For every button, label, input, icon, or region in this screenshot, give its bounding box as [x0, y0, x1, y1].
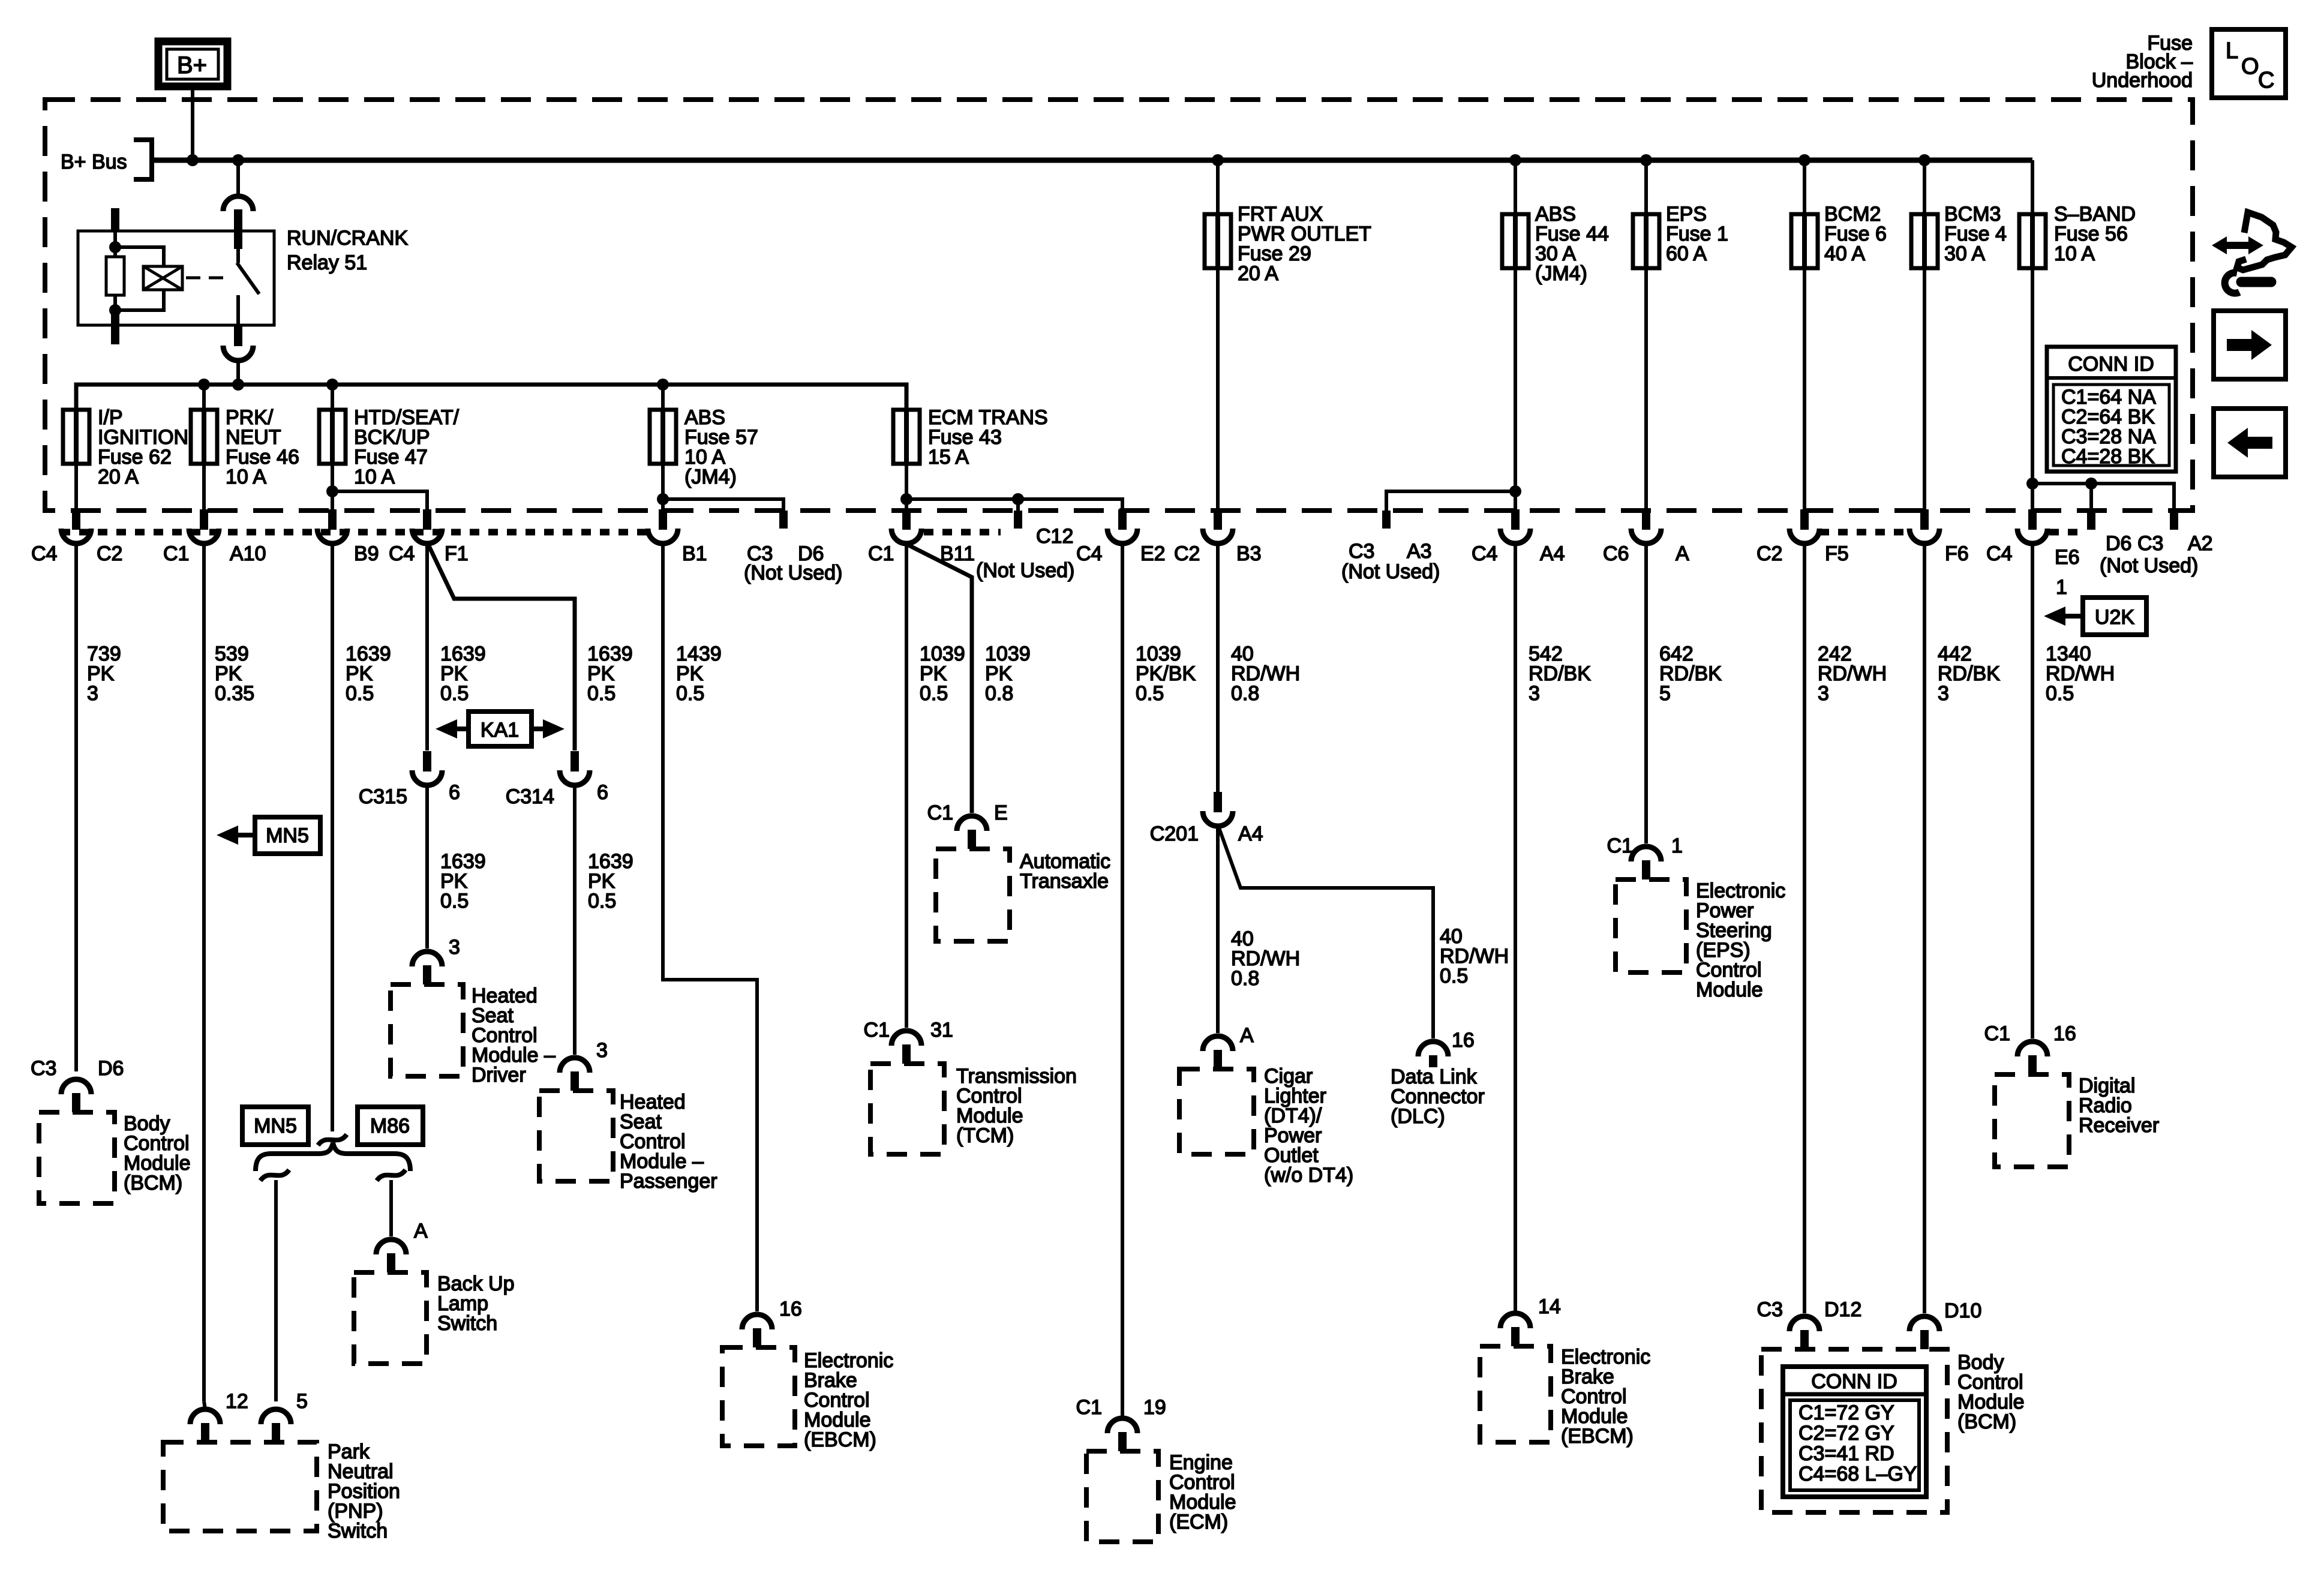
svg-text:E: E [994, 801, 1008, 824]
wire break squiggle (htd/seat) [318, 1134, 347, 1145]
relay output connector [234, 324, 242, 346]
junction bus to FRT AUX fuse [1212, 154, 1224, 166]
wire 739 PK (I/P to BCM) [74, 544, 78, 1071]
junction bus to BCM2 Fuse 6 [1798, 154, 1810, 166]
wire bus to relay connector [236, 160, 240, 197]
svg-text:C1: C1 [163, 542, 189, 565]
svg-text:0.5: 0.5 [1440, 965, 1468, 987]
svg-text:(BCM): (BCM) [124, 1172, 182, 1194]
relay coil wire upper [113, 232, 117, 247]
svg-text:(EBCM): (EBCM) [804, 1428, 876, 1451]
svg-text:(ECM): (ECM) [1169, 1511, 1228, 1533]
svg-text:Transaxle: Transaxle [1020, 870, 1109, 893]
junction bus to ABS Fuse 44 [1509, 154, 1521, 166]
svg-text:0.5: 0.5 [346, 682, 374, 705]
svg-text:0.8: 0.8 [1231, 682, 1259, 705]
wire B11 branch to transaxle [908, 545, 972, 813]
Cigar Lighter box [1179, 1069, 1254, 1154]
svg-text:0.5: 0.5 [440, 890, 469, 912]
svg-text:C12: C12 [1036, 525, 1073, 548]
wire B+ to B+ bus [191, 86, 194, 160]
svg-text:0.8: 0.8 [1231, 967, 1259, 990]
fuse FRT AUX PWR OUTLET Fuse 29 [1205, 214, 1231, 268]
svg-text:0.5: 0.5 [920, 682, 948, 705]
svg-text:C315: C315 [359, 785, 407, 808]
svg-text:A4: A4 [1540, 542, 1565, 565]
svg-text:D6: D6 [98, 1057, 124, 1080]
svg-text:E2: E2 [1140, 542, 1166, 565]
svg-text:16: 16 [1452, 1029, 1475, 1052]
svg-text:0.5: 0.5 [587, 682, 615, 705]
svg-text:B+ Bus: B+ Bus [61, 151, 127, 173]
junction fuse47 output branch [326, 485, 338, 497]
connector pin 3 heated seat driver [412, 951, 442, 966]
wire fuse44 to C4/A4 connector [1514, 268, 1517, 511]
connector C6/A (EPS output) [1642, 509, 1650, 530]
wire 40 RD/WH (B3 to C201) [1216, 544, 1220, 792]
relay solenoid coil (X box) [143, 266, 182, 290]
connector C1/19 ECM [1107, 1418, 1137, 1433]
wire 1639 PK (F1 to C315) [425, 544, 429, 751]
svg-text:12: 12 [226, 1390, 248, 1413]
svg-text:0.8: 0.8 [985, 682, 1013, 705]
fuse BCM3 Fuse 4 [1911, 214, 1938, 268]
svg-text:C4: C4 [1986, 542, 2012, 565]
wire branch to F1 connector [332, 491, 427, 511]
connector C1/B11 (ECM TRANS output) [902, 509, 911, 530]
svg-text:(Not Used): (Not Used) [976, 559, 1074, 582]
svg-text:C4: C4 [31, 542, 57, 565]
connector pin A cigar lighter [1203, 1036, 1233, 1051]
svg-text:F6: F6 [1945, 542, 1969, 565]
svg-text:C2=72 GY: C2=72 GY [1798, 1422, 1894, 1445]
KA1 reference box [469, 712, 532, 746]
stub C3/A3 (Not Used) [1382, 511, 1391, 529]
CONN ID table (BCM) [1783, 1367, 1926, 1497]
MN5 left arrow [217, 825, 238, 845]
svg-text:C3: C3 [2137, 532, 2163, 555]
svg-text:Switch: Switch [437, 1312, 497, 1335]
svg-text:40 A: 40 A [1824, 242, 1865, 265]
branch squiggle left [260, 1170, 289, 1181]
wire 242 RD/WH (F5 to BCM) [1803, 544, 1806, 1313]
svg-text:10 A: 10 A [354, 466, 395, 488]
relay switch blade [237, 263, 259, 294]
svg-text:C2: C2 [1756, 542, 1782, 565]
junction B+ to bus [187, 154, 199, 166]
wire fuse6 to F5 connector [1803, 268, 1806, 511]
svg-text:Module: Module [1696, 978, 1763, 1001]
wire C314 to heated seat passenger [573, 785, 577, 1055]
junction ign bus to relay output [232, 379, 244, 391]
svg-text:M86: M86 [370, 1115, 410, 1137]
wire fuse1 to C6/A connector [1644, 268, 1648, 511]
svg-text:6: 6 [449, 781, 460, 804]
svg-text:60 A: 60 A [1666, 242, 1707, 265]
connector C3/D12 BCM [1789, 1316, 1819, 1331]
wire relay output to ignition bus [236, 359, 240, 385]
svg-text:(JM4): (JM4) [1535, 262, 1587, 285]
wire branch to D6/A2 stubs [2032, 484, 2174, 511]
svg-text:C4: C4 [1472, 542, 1497, 565]
svg-text:C4=68 L–GY: C4=68 L–GY [1798, 1463, 1917, 1485]
svg-text:C1=72 GY: C1=72 GY [1798, 1401, 1894, 1424]
svg-text:C3: C3 [1757, 1298, 1783, 1321]
connector D10 BCM [1909, 1316, 1939, 1331]
Electronic Brake Control Module box (right) [1480, 1346, 1551, 1442]
connector body dotted line segment 4 [2049, 529, 2084, 536]
svg-text:C4=28 BK: C4=28 BK [2061, 445, 2155, 468]
svg-text:C4: C4 [389, 542, 415, 565]
wire fuse57 to B1 connector [661, 464, 665, 511]
svg-text:5: 5 [296, 1390, 308, 1413]
relay actuation dashed link [186, 277, 231, 280]
svg-text:F5: F5 [1825, 542, 1849, 565]
svg-text:CONN ID: CONN ID [2068, 353, 2154, 376]
M86 reference box [358, 1107, 423, 1145]
junction branch to D6 stub [2085, 478, 2097, 490]
junction fuse43 output branch [900, 493, 912, 505]
wire C201 branch to DLC [1219, 828, 1433, 1038]
svg-text:C1: C1 [1076, 1396, 1102, 1419]
svg-text:16: 16 [2053, 1022, 2076, 1045]
connector pin 16 DLC [1418, 1041, 1448, 1056]
svg-text:CONN ID: CONN ID [1811, 1370, 1897, 1393]
connector body dotted line segment 3 [1819, 529, 1908, 536]
svg-text:(DLC): (DLC) [1391, 1105, 1445, 1128]
svg-text:C6: C6 [1603, 542, 1629, 565]
svg-text:(Not Used): (Not Used) [2100, 554, 2198, 577]
wire branch to C3/A3 stub [1386, 491, 1515, 511]
wire fuse62 to connector [74, 464, 78, 511]
connector E6 (S-BAND output) [2028, 509, 2037, 530]
wire splice to backup lamp switch [389, 1180, 393, 1236]
svg-text:F1: F1 [445, 542, 469, 565]
svg-text:C1: C1 [1984, 1022, 2010, 1045]
svg-text:Underhood: Underhood [2092, 69, 2193, 92]
relay input connector [223, 196, 253, 211]
connector C315 [423, 751, 431, 772]
stub D6 (Not Used) [2087, 511, 2095, 530]
svg-text:(Not Used): (Not Used) [1341, 560, 1440, 583]
svg-text:A10: A10 [230, 542, 266, 565]
connector C314 [571, 751, 579, 772]
fuse ECM TRANS Fuse 43 [893, 410, 920, 464]
svg-text:A3: A3 [1407, 540, 1432, 563]
connector C4/F1 (HTD/SEAT branch) [423, 509, 431, 530]
Body Control Module BCM box (left) [39, 1112, 115, 1203]
svg-text:C201: C201 [1150, 822, 1199, 845]
connector pin 12 PNP [190, 1409, 220, 1424]
svg-text:3: 3 [1529, 682, 1540, 705]
svg-text:10 A: 10 A [2054, 242, 2095, 265]
svg-text:Relay 51: Relay 51 [287, 251, 367, 274]
svg-text:L: L [2226, 38, 2238, 64]
svg-text:B9: B9 [354, 542, 379, 565]
connector pin 5 PNP [261, 1409, 291, 1424]
svg-text:C4: C4 [1076, 542, 1102, 565]
relay internal junction lower [109, 304, 121, 316]
svg-text:0.5: 0.5 [676, 682, 704, 705]
svg-text:U2K: U2K [2095, 606, 2134, 629]
fuse PRK/NEUT Fuse 46 [191, 410, 217, 464]
Electronic Power Steering box [1616, 879, 1686, 972]
connector C1/1 EPS [1631, 846, 1661, 861]
Transmission Control Module box [870, 1064, 944, 1154]
KA1 right arrow [543, 719, 565, 739]
forward navigation box [2214, 311, 2286, 379]
connector body dotted line segment 1 [61, 529, 648, 536]
svg-text:0.5: 0.5 [440, 682, 469, 705]
connector C1/16 radio [2017, 1041, 2047, 1056]
wire 1039 PK/BK (E2 to ECM) [1121, 544, 1124, 1416]
junction ign bus to HTD/SEAT fuse [326, 379, 338, 391]
U2K reference box [2083, 598, 2146, 635]
svg-text:(TCM): (TCM) [956, 1124, 1014, 1147]
svg-text:(EBCM): (EBCM) [1561, 1425, 1634, 1448]
svg-text:Receiver: Receiver [2079, 1114, 2159, 1137]
svg-text:C1: C1 [1607, 834, 1633, 857]
svg-text:A: A [1240, 1024, 1254, 1047]
svg-text:B1: B1 [682, 542, 707, 565]
svg-text:(w/o DT4): (w/o DT4) [1264, 1164, 1353, 1187]
stub C12 (Not Used) [1014, 511, 1022, 529]
connector C4/C2 (I/P ignition output) [72, 509, 80, 530]
RUN/CRANK Relay 51 box [78, 231, 274, 325]
svg-text:A: A [1676, 542, 1689, 565]
svg-text:14: 14 [1538, 1295, 1561, 1318]
junction ign bus to PRK/NEUT fuse [198, 379, 210, 391]
relay switch common stub [234, 231, 242, 249]
Back Up Lamp Switch box [354, 1272, 427, 1364]
svg-text:16: 16 [779, 1298, 802, 1320]
wire 442 RD/BK (F6 to BCM) [1923, 544, 1926, 1313]
vehicle service icon (wrench) [2241, 277, 2271, 287]
wire 1439 PK (B1 to EBCM) [663, 544, 757, 1311]
stub C3/D6 (Not Used) [779, 511, 788, 529]
connector C201/A4 [1214, 792, 1222, 812]
wire splice to PNP pin 5 [274, 1180, 278, 1401]
svg-text:C314: C314 [506, 785, 554, 808]
U2K left arrow [2044, 607, 2065, 626]
vehicle service icon (car outline) [2237, 212, 2292, 270]
svg-text:5: 5 [1659, 682, 1671, 705]
Engine Control Module box [1086, 1451, 1158, 1542]
wire D6 stub [2089, 484, 2093, 511]
junction ign bus to ABS Fuse 57 [657, 379, 669, 391]
connector C3/D6 BCM [61, 1079, 91, 1094]
svg-text:MN5: MN5 [266, 824, 309, 847]
fuse block boundary (Fuse Block - Underhood), dashed border [45, 100, 2193, 511]
wire 1340 RD/WH (E6 to radio) [2031, 544, 2034, 1038]
MN5 reference box (lower) [242, 1107, 308, 1145]
svg-text:C3: C3 [31, 1057, 56, 1080]
wire 542 RD/BK (A4 to EBCM) [1514, 544, 1517, 1311]
svg-text:D10: D10 [1944, 1299, 1981, 1322]
relay resistor element [113, 247, 117, 257]
svg-text:D6: D6 [2106, 532, 2131, 555]
connector C2/B3 (FRT AUX output) [1214, 509, 1222, 530]
relay coil pin stub bottom [111, 311, 119, 344]
back navigation arrow [2227, 428, 2272, 458]
svg-text:KA1: KA1 [481, 719, 519, 742]
fuse EPS Fuse 1 [1633, 214, 1659, 268]
relay coil pin stub top [111, 208, 119, 232]
svg-text:20 A: 20 A [1238, 262, 1278, 285]
wire 1039 PK (C1 to TCM) [905, 544, 908, 1028]
svg-text:(JM4): (JM4) [684, 466, 737, 488]
svg-text:0.5: 0.5 [2046, 682, 2074, 705]
connector pin 16 EBCM left [742, 1314, 772, 1329]
svg-text:3: 3 [1938, 682, 1949, 705]
wire fuse4 to F6 connector [1923, 268, 1926, 511]
svg-text:C1: C1 [864, 1019, 890, 1041]
connector C1/31 TCM [891, 1031, 921, 1046]
svg-text:6: 6 [597, 781, 608, 804]
svg-text:3: 3 [87, 682, 98, 705]
relay solenoid branch wires [115, 247, 164, 266]
svg-text:A4: A4 [1238, 822, 1263, 845]
ignition voltage bus (run/crank output) [76, 385, 906, 410]
svg-text:B3: B3 [1236, 542, 1262, 565]
connector B9 (HTD/SEAT output) [328, 509, 337, 530]
wire C201 to cigar lighter [1216, 826, 1220, 1033]
fuse ABS Fuse 44 [1502, 214, 1529, 268]
LOC service info box [2212, 29, 2286, 98]
svg-text:30 A: 30 A [1944, 242, 1985, 265]
junction bus to RUN/CRANK relay [232, 154, 244, 166]
Heated Seat Control Module Passenger box [539, 1091, 613, 1181]
junction bus to BCM3 Fuse 4 [1918, 154, 1930, 166]
svg-text:0.5: 0.5 [588, 890, 616, 912]
connector C4/A4 (ABS fuse44 output) [1511, 509, 1520, 530]
wire 539 PK (PRK/NEUT to PNP) [202, 544, 206, 1401]
svg-text:20 A: 20 A [98, 466, 139, 488]
connector F6 (BCM3 output) [1920, 509, 1929, 530]
svg-text:19: 19 [1143, 1396, 1166, 1419]
forward navigation arrow [2227, 330, 2272, 360]
svg-text:1: 1 [2056, 576, 2067, 599]
connector C2/F5 (BCM2 output) [1800, 509, 1809, 530]
fuse I/P IGNITION Fuse 62 [63, 410, 89, 464]
svg-text:Switch: Switch [328, 1520, 388, 1542]
junction branch to C12 stub [1012, 493, 1024, 505]
connector pin 14 EBCM right [1500, 1313, 1530, 1328]
svg-text:0.35: 0.35 [215, 682, 254, 705]
B+ bus left bracket [134, 140, 152, 179]
svg-text:B+: B+ [177, 52, 207, 79]
svg-text:1: 1 [1671, 834, 1683, 857]
relay switch output wire [236, 295, 240, 325]
CONN ID table (fuse block) [2047, 347, 2176, 472]
svg-text:(Not Used): (Not Used) [744, 562, 842, 584]
svg-text:(BCM): (BCM) [1957, 1410, 2016, 1433]
B+ bus wire (top power bus) [152, 158, 2032, 163]
connector pin 3 heated seat passenger [560, 1058, 590, 1073]
wire 642 RD/BK (A to EPS module) [1644, 544, 1648, 843]
svg-text:E6: E6 [2055, 546, 2080, 569]
connector C1/A10 (PRK/NEUT output) [200, 509, 208, 530]
svg-text:C: C [2258, 68, 2274, 93]
vehicle service icon (double arrow) [2212, 236, 2263, 254]
relay internal junction upper [109, 241, 121, 253]
connector pin A backup lamp [376, 1239, 406, 1254]
svg-text:10 A: 10 A [226, 466, 266, 488]
wire 539 to pin 12 [204, 1401, 205, 1409]
wire C12 stub [1016, 499, 1020, 511]
svg-text:RUN/CRANK: RUN/CRANK [287, 227, 408, 250]
svg-text:A2: A2 [2188, 532, 2213, 555]
KA1 left arrow [436, 719, 457, 739]
svg-text:D12: D12 [1824, 1298, 1861, 1321]
junction fuse57 output branch [657, 493, 669, 505]
svg-text:15 A: 15 A [928, 446, 969, 469]
MN5 reference box (upper) [255, 817, 320, 854]
wire fuse43 to C1 connector [905, 464, 908, 511]
svg-text:Passenger: Passenger [620, 1170, 717, 1193]
Park Neutral Position Switch box [163, 1442, 317, 1531]
connector body dotted line segment 2 [924, 529, 1001, 536]
svg-text:0.5: 0.5 [1136, 682, 1164, 705]
wire fuse47 to B9 connector [331, 464, 334, 511]
wire branch to C3/D6 stub [663, 499, 783, 511]
junction fuse56 output branch [2026, 478, 2038, 490]
fuse HTD/SEAT/BCK/UP Fuse 47 [319, 410, 346, 464]
svg-text:MN5: MN5 [254, 1115, 297, 1137]
stub C3/A2 [2170, 511, 2178, 530]
svg-text:C2: C2 [1174, 542, 1200, 565]
connector B1 (ABS fuse57 output) [659, 509, 667, 530]
svg-text:C1: C1 [927, 801, 953, 824]
svg-text:C3: C3 [1349, 540, 1374, 563]
wire fuse46 to connector [202, 464, 206, 511]
svg-text:31: 31 [930, 1019, 953, 1041]
svg-text:C1: C1 [868, 542, 894, 565]
svg-text:3: 3 [596, 1039, 608, 1062]
connector C1/E transaxle [957, 816, 987, 831]
Digital Radio Receiver box [1995, 1074, 2069, 1167]
wire fuse29 to B3 connector [1216, 268, 1220, 511]
svg-text:C2: C2 [97, 542, 122, 565]
wire C315 to heated seat driver [425, 785, 429, 948]
B+ power symbol box [158, 41, 227, 86]
Electronic Brake Control Module box (left) [722, 1347, 795, 1446]
wire 1639 PK (HTD/SEAT main) [331, 544, 334, 1131]
fuse BCM2 Fuse 6 [1791, 214, 1818, 268]
svg-text:A: A [414, 1220, 428, 1242]
wire fuse56 to E6 connector [2031, 268, 2034, 511]
svg-text:O: O [2241, 54, 2259, 79]
fuse S-BAND Fuse 56 [2019, 214, 2046, 268]
junction fuse44 output branch [1509, 485, 1521, 497]
Body Control Module BCM box (right) [1761, 1349, 1947, 1512]
svg-text:Driver: Driver [472, 1064, 526, 1086]
svg-text:3: 3 [449, 936, 460, 959]
splice brace [256, 1143, 410, 1171]
connector C4/E2 [1118, 509, 1127, 530]
Heated Seat Control Module Driver box [391, 984, 463, 1076]
wire branch to E2 connector [906, 499, 1122, 511]
Automatic Transaxle box [936, 849, 1010, 941]
svg-text:C3=41 RD: C3=41 RD [1798, 1442, 1894, 1465]
svg-text:3: 3 [1818, 682, 1829, 705]
junction bus to EPS Fuse 1 [1640, 154, 1652, 166]
fuse ABS Fuse 57 [650, 410, 676, 464]
back navigation box [2214, 409, 2286, 477]
branch squiggle right [377, 1170, 406, 1181]
wire F1 branch diagonal to C314 column [428, 545, 575, 751]
